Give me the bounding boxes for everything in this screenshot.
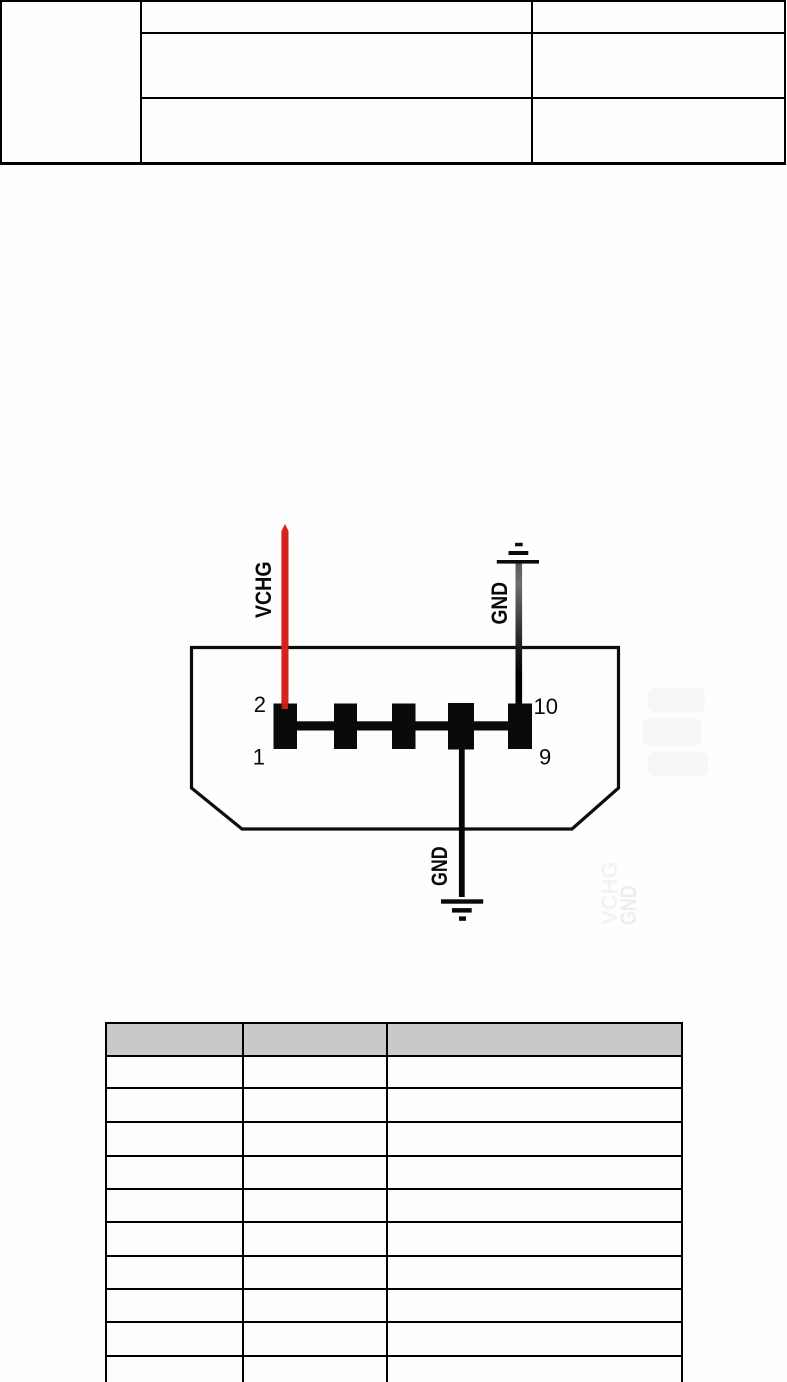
bottom table row line 5 <box>105 1221 683 1223</box>
bottom table column line 1 <box>242 1022 244 1382</box>
connector body outline <box>192 648 619 830</box>
svg-text:VCHG: VCHG <box>252 561 276 618</box>
wire VCHG (red, pin 2 up) <box>281 524 288 710</box>
bottom table row line 2 <box>105 1121 683 1123</box>
top table bottom border <box>0 162 786 165</box>
pin 10 block <box>508 704 532 750</box>
top table vertical line x=141 <box>140 0 142 164</box>
bottom table right border <box>681 1022 683 1382</box>
bottom table row line 4 <box>105 1188 683 1190</box>
wire VCHG overlap on pin 2 <box>282 704 288 710</box>
svg-text:2: 2 <box>254 692 266 717</box>
earth ground symbol top <box>497 543 539 564</box>
svg-text:GND: GND <box>617 885 641 925</box>
svg-text:10: 10 <box>534 694 558 719</box>
bottom table column line 2 <box>386 1022 388 1382</box>
earth ground symbol bottom (inverted) <box>441 899 483 921</box>
top table left border <box>0 0 2 164</box>
pin block 4 <box>448 703 474 750</box>
pin bus bar <box>285 721 520 730</box>
svg-text:1: 1 <box>253 745 265 770</box>
bottom table row line 8 <box>105 1321 683 1323</box>
bottom table top border <box>105 1022 683 1024</box>
top table top border <box>0 0 786 2</box>
bottom table row line 7 <box>105 1288 683 1290</box>
bottom table header fill <box>105 1023 681 1056</box>
svg-text:GND: GND <box>488 582 513 625</box>
bottom table row line 1 <box>105 1087 683 1089</box>
pin 2 block <box>274 704 298 750</box>
pin block 3 <box>392 704 416 750</box>
svg-text:GND: GND <box>428 846 452 886</box>
wire GND bottom (pin 4 down) <box>459 749 465 897</box>
pin block 2 <box>334 704 357 750</box>
faint ghost smudges right of connector <box>643 688 708 776</box>
top table row line y=33 <box>140 32 786 34</box>
bottom table row line 9 <box>105 1355 683 1357</box>
top table row line y=98 <box>140 97 786 99</box>
top table right border <box>784 0 787 164</box>
top table vertical line x=531 <box>531 0 533 164</box>
wire GND top (pin 10 up to earth) <box>516 562 523 705</box>
bottom table left border <box>105 1022 108 1382</box>
bottom table header bottom line <box>105 1055 683 1057</box>
bottom table row line 3 <box>105 1155 683 1157</box>
bottom table row line 6 <box>105 1255 683 1257</box>
svg-text:9: 9 <box>539 745 551 770</box>
